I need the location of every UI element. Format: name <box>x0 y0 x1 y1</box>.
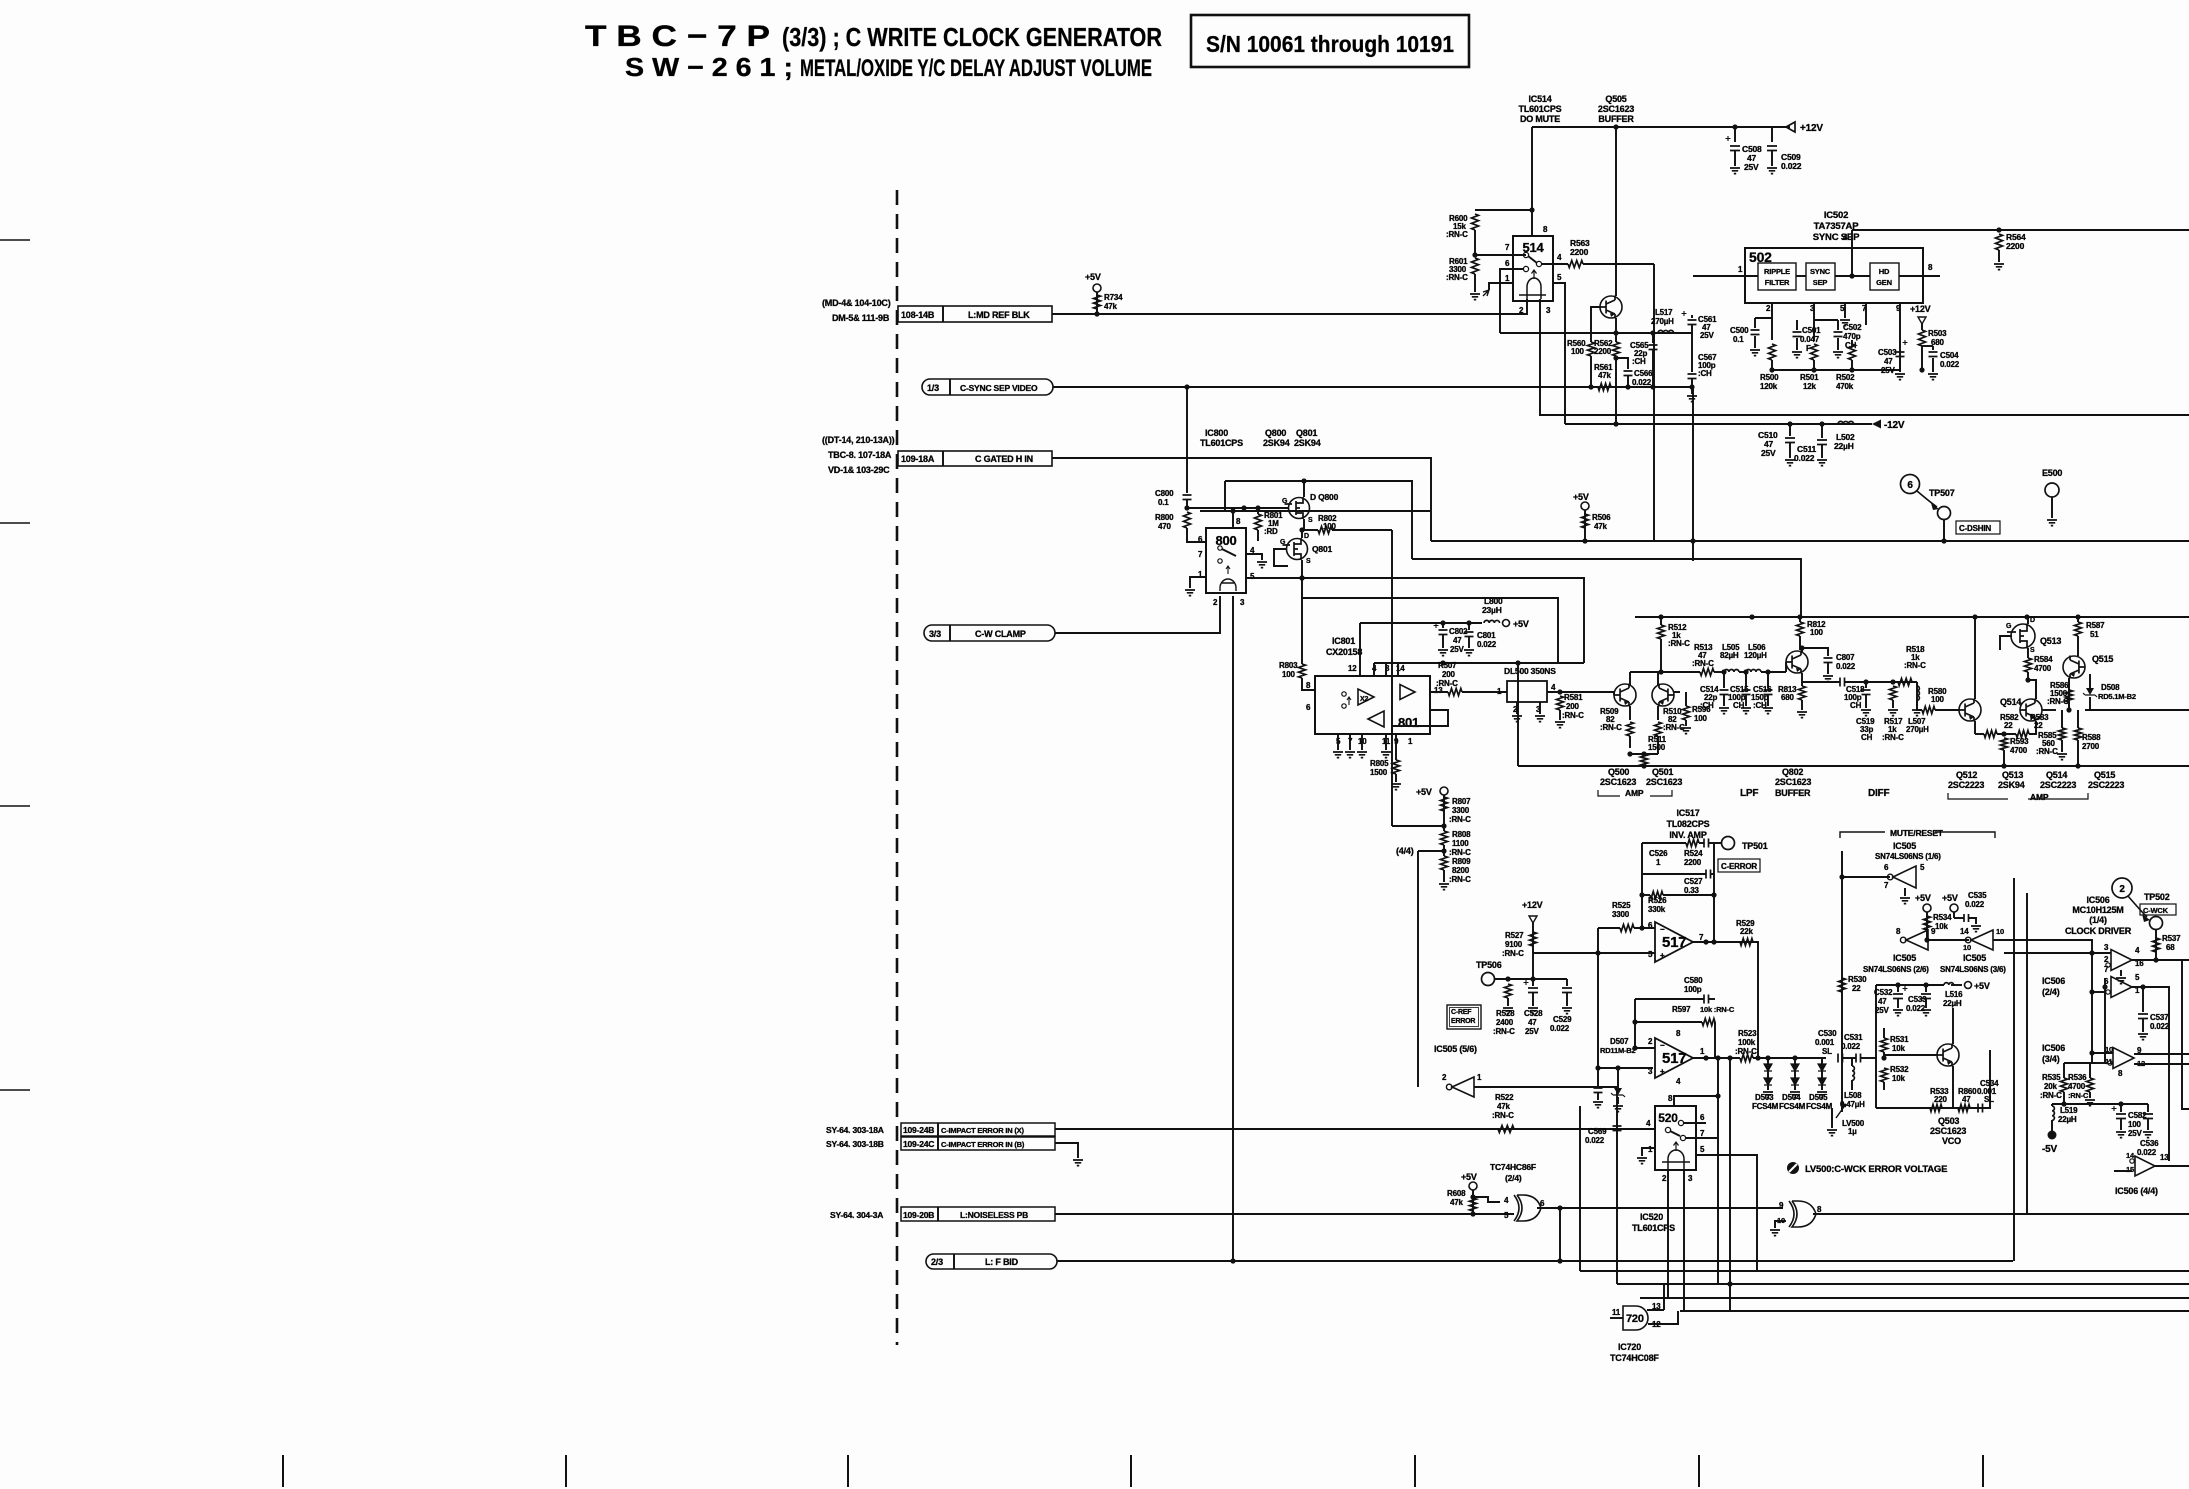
wire IC502 pin4 riser to top rail <box>1851 230 1853 276</box>
svg-text:109-24C: 109-24C <box>903 1139 934 1149</box>
svg-text:DO MUTE: DO MUTE <box>1520 114 1560 124</box>
ground IC506-1 <box>2120 970 2122 976</box>
capacitor C503 <box>1896 352 1905 357</box>
capacitor C528 <box>1532 979 1534 986</box>
svg-text:2/3: 2/3 <box>931 1257 943 1267</box>
svg-text:IC506: IC506 <box>2042 976 2065 986</box>
svg-text:2SK94: 2SK94 <box>1998 780 2025 790</box>
svg-text:G: G <box>1280 539 1286 546</box>
svg-text:R534: R534 <box>1933 913 1952 922</box>
resistor R608 <box>1470 1198 1477 1211</box>
svg-text::RN-C: :RN-C <box>1600 723 1622 732</box>
wire C537 node <box>2142 987 2144 1012</box>
svg-text:TL601CPS: TL601CPS <box>1519 104 1562 114</box>
capacitor C508 <box>1734 127 1736 142</box>
zener diode D508 <box>2089 674 2091 688</box>
capacitor C518 series <box>1840 678 1845 687</box>
capacitor C511 <box>1821 424 1823 438</box>
svg-text:10k :RN-C: 10k :RN-C <box>1700 1005 1735 1014</box>
transistor Q503 VCO <box>1937 1044 1959 1066</box>
wire Q801 gate loop <box>1274 549 1288 566</box>
capacitor C536 <box>2147 1104 2149 1112</box>
svg-text:+5V: +5V <box>1513 619 1529 629</box>
transistor Q512 <box>1959 699 1981 721</box>
svg-text:11: 11 <box>1612 1308 1621 1317</box>
svg-text:100: 100 <box>1810 628 1823 637</box>
capacitor C802 <box>1442 623 1444 628</box>
transistor Q501 <box>1652 684 1674 706</box>
svg-text:25V: 25V <box>2128 1129 2142 1138</box>
wire C-IMPACT ERROR IN (X) <box>1055 1128 1655 1130</box>
svg-text::CH: :CH <box>1700 701 1714 710</box>
wire IC502 pin8 <box>1899 275 1940 277</box>
svg-text:BUFFER: BUFFER <box>1775 788 1811 798</box>
svg-text:47k: 47k <box>1497 1102 1510 1111</box>
connector 109-24B C-IMPACT ERROR IN (X) <box>901 1123 1055 1136</box>
svg-text:+5V: +5V <box>1461 1172 1477 1182</box>
buffer IC506 4/4 <box>2135 1156 2155 1176</box>
wire IC514 pin5 to -12V rail <box>1552 283 1565 424</box>
svg-text::RN-C: :RN-C <box>1562 711 1584 720</box>
svg-text:3300: 3300 <box>1452 806 1470 815</box>
svg-text:2200: 2200 <box>1594 347 1612 356</box>
svg-text:0.022: 0.022 <box>1841 1042 1861 1051</box>
wire lower opamp output <box>1693 1057 1740 1059</box>
svg-text:0.022: 0.022 <box>1906 1004 1926 1013</box>
wire C-SYNC SEP VIDEO <box>1053 387 1693 561</box>
svg-text:G: G <box>1282 498 1288 505</box>
svg-text:AMP: AMP <box>2030 792 2049 802</box>
svg-text:R526: R526 <box>1648 896 1667 905</box>
capacitor C516 <box>1767 672 1769 688</box>
svg-text:C-SYNC SEP VIDEO: C-SYNC SEP VIDEO <box>960 383 1038 393</box>
svg-text:2SC2223: 2SC2223 <box>1948 780 1984 790</box>
wire DL500 output <box>1547 691 1614 693</box>
capacitor C532 <box>1897 985 1899 992</box>
svg-text:22µH: 22µH <box>1834 441 1854 451</box>
input verticals to IC506 <box>2091 940 2093 1063</box>
svg-text:0.022: 0.022 <box>1781 161 1802 171</box>
capacitor C501 <box>1793 332 1802 337</box>
test point TP501 <box>1714 842 1721 844</box>
svg-text:L517: L517 <box>1655 308 1673 317</box>
svg-text:2SC1623: 2SC1623 <box>1646 777 1682 787</box>
wire pin10/11 inputs <box>2092 1052 2113 1054</box>
net label C-ERROR <box>1718 859 1760 872</box>
svg-text::RN-C: :RN-C <box>1436 679 1458 688</box>
svg-text:+5V: +5V <box>1915 893 1931 903</box>
capacitor C565 <box>1649 345 1658 350</box>
svg-text:15: 15 <box>2126 1165 2134 1174</box>
capacitor C582 <box>2120 1104 2122 1112</box>
svg-text:12k: 12k <box>1803 382 1816 391</box>
svg-text:R584: R584 <box>2034 655 2053 664</box>
svg-text:1500: 1500 <box>1648 743 1666 752</box>
circled 2 pointer <box>2112 878 2132 898</box>
svg-text::CH: :CH <box>1632 357 1646 366</box>
svg-text:C566: C566 <box>1634 369 1653 378</box>
resistor R586 <box>2066 690 2073 702</box>
resistor R517 <box>1890 686 1897 700</box>
svg-text:10k: 10k <box>1892 1044 1905 1053</box>
svg-text:TC74HC08F: TC74HC08F <box>1610 1353 1659 1363</box>
resistor R528 <box>1505 984 1512 998</box>
capacitor C801 <box>1468 623 1470 630</box>
capacitor C519 <box>1865 682 1867 688</box>
wire long rail y541 C-DSHIN <box>1431 540 2189 542</box>
wire IC800 pin1 ground <box>1190 577 1206 588</box>
svg-text:C504: C504 <box>1940 351 1959 360</box>
svg-text:9100: 9100 <box>1505 940 1523 949</box>
svg-text:517: 517 <box>1662 934 1686 951</box>
svg-text:C529: C529 <box>1553 1015 1572 1024</box>
wire +5V rail L800 <box>1360 622 1482 624</box>
svg-text:IC517: IC517 <box>1676 808 1699 818</box>
label LV500 C-WCK ERROR VOLTAGE <box>1787 1162 1799 1174</box>
svg-text:47k: 47k <box>1450 1198 1463 1207</box>
svg-text:CX20158: CX20158 <box>1326 647 1362 657</box>
svg-text:100p: 100p <box>1684 985 1702 994</box>
inverter IC505 5/6 <box>1452 1077 1474 1097</box>
wire R535 node rail <box>2052 1103 2121 1105</box>
svg-text:IC800: IC800 <box>1205 428 1228 438</box>
svg-text:100: 100 <box>2128 1120 2141 1129</box>
svg-text:1100: 1100 <box>1452 839 1469 848</box>
svg-text:13: 13 <box>2160 1153 2169 1162</box>
svg-text:L:MD REF BLK: L:MD REF BLK <box>968 310 1030 320</box>
vertical x2014 <box>2013 878 2015 1261</box>
svg-text:IC506 (4/4): IC506 (4/4) <box>2115 1186 2158 1196</box>
svg-text:C537: C537 <box>2150 1013 2169 1022</box>
svg-text:25V: 25V <box>1700 331 1714 340</box>
svg-text:109-24B: 109-24B <box>903 1125 934 1135</box>
svg-text:470p: 470p <box>1843 332 1861 341</box>
zener diode D507 <box>1617 1068 1619 1088</box>
wire inverter 5/6 output <box>1474 1086 1617 1088</box>
svg-text:TP501: TP501 <box>1742 841 1768 851</box>
svg-text:22: 22 <box>2004 721 2013 730</box>
wire rail y766 bottom of band <box>1518 765 2189 767</box>
wire IC506-3 outputs <box>2134 1053 2189 1055</box>
svg-text:R535: R535 <box>2042 1073 2061 1082</box>
wire top rail over IC800 <box>1200 510 1430 512</box>
svg-text:C-DSHIN: C-DSHIN <box>1959 524 1991 533</box>
wire Q800 drain rail <box>1225 481 1412 559</box>
svg-text:CH: CH <box>1861 733 1873 742</box>
svg-text:720: 720 <box>1626 1313 1644 1325</box>
wire +12V top rail <box>1532 126 1790 128</box>
wire IC514 pin8 riser <box>1531 127 1533 236</box>
svg-text:1/3: 1/3 <box>927 383 939 393</box>
svg-text:3/3: 3/3 <box>929 629 941 639</box>
svg-text:Q515: Q515 <box>2094 770 2115 780</box>
wire Q514 base to Q515 <box>2042 709 2056 711</box>
svg-text:100k: 100k <box>1738 1038 1756 1047</box>
wire rail y333 below Q505 <box>1500 332 1692 334</box>
resistor R800 <box>1184 505 1189 510</box>
svg-text:C501: C501 <box>1802 326 1821 335</box>
diodes D503 D504 D505 <box>1767 1058 1769 1064</box>
wire between inverters <box>1928 939 1969 941</box>
svg-text:2SK94: 2SK94 <box>1294 438 1321 448</box>
resistor R808 <box>1441 831 1448 845</box>
svg-text:25V: 25V <box>1525 1027 1539 1036</box>
svg-text:C531: C531 <box>1844 1033 1863 1042</box>
svg-text:GEN: GEN <box>1876 278 1892 287</box>
svg-text:(2/4): (2/4) <box>2042 987 2060 997</box>
wire bus y1298 <box>1640 1297 2189 1299</box>
resistors R582 R583 <box>1984 731 1997 738</box>
IC801 ground pins <box>1337 734 1339 750</box>
svg-text:+: + <box>1660 951 1665 960</box>
svg-text:S: S <box>2030 647 2035 654</box>
svg-text:200: 200 <box>1442 670 1455 679</box>
svg-text::RN-C: :RN-C <box>1449 848 1471 857</box>
svg-text:22: 22 <box>2034 721 2043 730</box>
resistor R564 <box>1996 234 2003 250</box>
IC801 body <box>1315 676 1430 734</box>
svg-text:R734: R734 <box>1104 293 1123 302</box>
resistor R801 <box>1255 514 1262 530</box>
svg-text:Q500: Q500 <box>1608 767 1629 777</box>
svg-text:SY-64. 303-18A: SY-64. 303-18A <box>826 1125 884 1135</box>
svg-text:2400: 2400 <box>1496 1018 1514 1027</box>
svg-text:IC505: IC505 <box>1893 841 1916 851</box>
svg-text:330k: 330k <box>1648 905 1666 914</box>
svg-text:LV500:C-WCK ERROR VOLTAGE: LV500:C-WCK ERROR VOLTAGE <box>1805 1164 1947 1175</box>
wire TP506 node <box>1495 978 1567 980</box>
resistor R522 in line <box>1498 1126 1514 1133</box>
wire IC520 pin1 ground <box>1642 1148 1655 1156</box>
wire T4 input routing <box>2114 1170 2132 1172</box>
svg-text:SN74LS06NS (3/6): SN74LS06NS (3/6) <box>1940 965 2006 974</box>
svg-text:680: 680 <box>1781 693 1794 702</box>
wire R529 down to lower opamp output <box>1753 942 1758 1058</box>
wire vertical x1518 <box>1517 663 1519 766</box>
svg-text:2SK94: 2SK94 <box>1263 438 1290 448</box>
svg-text:D: D <box>2030 617 2035 624</box>
vertical x1580 <box>1579 1106 1581 1271</box>
buffer IC506 1/4 <box>2111 950 2132 971</box>
resistor R600 <box>1475 209 1532 211</box>
svg-text:82µH: 82µH <box>1720 651 1739 660</box>
svg-text:0.022: 0.022 <box>2137 1148 2157 1157</box>
svg-text:E500: E500 <box>2042 468 2062 478</box>
svg-text:FCS4M: FCS4M <box>1806 1102 1833 1111</box>
svg-text:C500: C500 <box>1730 326 1749 335</box>
svg-text:MUTE/RESET: MUTE/RESET <box>1890 828 1944 838</box>
svg-text:AMP: AMP <box>1625 788 1644 798</box>
svg-text:C800: C800 <box>1155 489 1174 498</box>
svg-text:INV. AMP: INV. AMP <box>1669 830 1706 840</box>
net label C-REF ERROR box <box>1447 1005 1481 1029</box>
wire IC514 pin1 ground <box>1489 283 1513 290</box>
wire from R802 down to IC517 area <box>1391 530 1393 826</box>
wire R601 to IC514 pin7 <box>1475 254 1526 256</box>
vertical drops below IC520 <box>1559 1208 1561 1261</box>
svg-text:R588: R588 <box>2082 733 2101 742</box>
inductor L800 <box>1484 620 1500 623</box>
vertical x1668 from IC520 pin2 <box>1667 1170 1669 1298</box>
wire IC502 pin1 <box>1693 275 1758 277</box>
svg-text:C528: C528 <box>1524 1009 1543 1018</box>
wire XOR2 pin10 ground <box>1775 1221 1786 1228</box>
svg-text:RD5.1M-B2: RD5.1M-B2 <box>2098 692 2136 701</box>
inductor L502 <box>1838 421 1854 424</box>
svg-text:SL: SL <box>1822 1047 1832 1056</box>
svg-text:C527: C527 <box>1684 877 1703 886</box>
svg-text:25V: 25V <box>1450 645 1464 654</box>
svg-text:0.022: 0.022 <box>1550 1024 1570 1033</box>
IC801 internal x2 amp <box>1358 689 1374 705</box>
svg-text:10: 10 <box>1963 943 1971 952</box>
wire L:MD REF BLK to IC514 pin2 <box>1052 299 1527 314</box>
svg-text:0.001: 0.001 <box>1815 1038 1835 1047</box>
svg-text:470k: 470k <box>1836 382 1854 391</box>
coil L516 <box>1944 983 1954 985</box>
wire IC800 pin4 <box>1246 554 1262 560</box>
svg-text:68: 68 <box>2166 943 2175 952</box>
capacitor on +input rail <box>1597 1068 1599 1086</box>
svg-text:270µH: 270µH <box>1651 317 1674 326</box>
svg-text:VD-1& 103-29C: VD-1& 103-29C <box>828 465 890 475</box>
svg-text:−: − <box>1660 925 1665 934</box>
transistor Q802 <box>1786 651 1808 673</box>
svg-text:C-ERROR: C-ERROR <box>1721 862 1757 871</box>
svg-text:C503: C503 <box>1878 348 1897 357</box>
svg-text:47: 47 <box>1884 357 1893 366</box>
svg-text:L:NOISELESS PB: L:NOISELESS PB <box>960 1210 1028 1220</box>
wire output rail y692 to DL500 <box>1430 691 1448 693</box>
svg-text:R536: R536 <box>2068 1073 2087 1082</box>
wire rail y617 <box>1635 616 2189 618</box>
resistor R511 <box>1630 753 1658 755</box>
buffer IC506 3/4 <box>2113 1048 2134 1069</box>
svg-text:Q513: Q513 <box>2040 636 2061 646</box>
resistor R509 <box>1627 722 1634 736</box>
wire XOR2 output bus <box>1813 1213 2189 1215</box>
wire Q514/Q515 emitter rail y710 <box>2085 709 2189 711</box>
svg-text:D507: D507 <box>1610 1037 1629 1046</box>
svg-text:FCS4M: FCS4M <box>1752 1102 1779 1111</box>
svg-text:22µH: 22µH <box>2058 1115 2077 1124</box>
connector 109-24C C-IMPACT ERROR IN (B) <box>901 1137 1055 1150</box>
resistor R593 <box>2001 738 2008 750</box>
resistor R584 <box>2025 658 2032 672</box>
svg-text:22µH: 22µH <box>1943 999 1962 1008</box>
svg-text:IC505 (5/6): IC505 (5/6) <box>1434 1044 1477 1054</box>
svg-text::RN-C: :RN-C <box>1735 1047 1757 1056</box>
wire IC520 pin5 <box>1696 1155 1757 1271</box>
wire x2182 loop <box>2182 960 2189 1109</box>
svg-text:L516: L516 <box>1945 990 1963 999</box>
capacitor C537 <box>2138 1014 2148 1019</box>
buffer IC506 2/4 <box>2111 977 2132 998</box>
svg-text:2: 2 <box>2119 884 2125 895</box>
svg-text:R800: R800 <box>1155 513 1174 522</box>
test point TP502 <box>2150 917 2163 930</box>
IC502 hd gen block <box>1870 263 1899 290</box>
svg-text:0.022: 0.022 <box>1477 640 1497 649</box>
svg-text:R523: R523 <box>1738 1029 1757 1038</box>
svg-text:D504: D504 <box>1782 1093 1801 1102</box>
resistor R734 <box>1096 292 1098 314</box>
svg-text::RN-C: :RN-C <box>2036 747 2058 756</box>
svg-text:C GATED H IN: C GATED H IN <box>975 454 1033 464</box>
svg-text:S: S <box>1308 517 1313 524</box>
inductor L507 <box>1916 682 1918 686</box>
svg-text:SN74LS06NS (2/6): SN74LS06NS (2/6) <box>1863 965 1929 974</box>
svg-text:2200: 2200 <box>1684 858 1702 867</box>
svg-text:C-WCK: C-WCK <box>2143 906 2169 915</box>
capacitor C514 <box>1723 672 1725 688</box>
svg-text:(2/4): (2/4) <box>1505 1173 1522 1183</box>
svg-text:Q503: Q503 <box>1938 1116 1959 1126</box>
connector 109-18A C GATED H IN <box>898 451 1052 466</box>
svg-text:R530: R530 <box>1848 975 1867 984</box>
svg-text:8200: 8200 <box>1452 866 1470 875</box>
svg-text:IC506: IC506 <box>2042 1043 2065 1053</box>
wire vertical to lower opamp + input <box>1598 953 1653 1068</box>
wire rail y578 from switch 800 pin5 <box>1246 578 1584 663</box>
svg-text:220: 220 <box>1934 1095 1947 1104</box>
capacitor C515 <box>1745 672 1747 688</box>
+5V feed R608 <box>1469 1182 1477 1190</box>
left edge ticks <box>0 240 30 1090</box>
vertical x1617 <box>1616 1087 1618 1284</box>
dashed board boundary line <box>896 190 899 1345</box>
svg-text:Q800: Q800 <box>1265 428 1286 438</box>
svg-text:1µ: 1µ <box>1848 1127 1857 1136</box>
wire IC801 pin14 to DL500 rail <box>1397 663 1399 676</box>
svg-text:+: + <box>1660 1067 1665 1076</box>
feedback C580 R597 <box>1635 1047 1655 1049</box>
wire C GATED H IN <box>1052 458 1431 541</box>
svg-text:TP502: TP502 <box>2144 892 2170 902</box>
svg-text:L508: L508 <box>1844 1091 1862 1100</box>
svg-text:6: 6 <box>1907 480 1913 491</box>
svg-text:(3/3) ; C WRITE CLOCK GENERAT: (3/3) ; C WRITE CLOCK GENERATOR <box>782 22 1162 52</box>
svg-text:100: 100 <box>1571 347 1584 356</box>
svg-text:DIFF: DIFF <box>1868 788 1890 799</box>
svg-text:R805: R805 <box>1370 759 1389 768</box>
svg-text:14: 14 <box>1960 927 1969 936</box>
wire long rail y415 <box>1539 414 2189 416</box>
transistor Q801 (FET) <box>1287 539 1308 560</box>
svg-text:2SC2223: 2SC2223 <box>2040 780 2076 790</box>
svg-text:+12V: +12V <box>1910 304 1931 314</box>
svg-text:R581: R581 <box>1564 693 1583 702</box>
svg-text:R807: R807 <box>1452 797 1471 806</box>
IC801 internal inverter <box>1368 711 1384 727</box>
resistor R523 <box>1740 1055 1753 1062</box>
svg-text:-12V: -12V <box>1884 420 1905 431</box>
svg-text:Q501: Q501 <box>1652 767 1673 777</box>
connector 2/3 L: F BID pill <box>926 1254 1057 1269</box>
svg-text:SYNC: SYNC <box>1810 267 1831 276</box>
svg-text:47k: 47k <box>1594 522 1607 531</box>
svg-text:C-REF: C-REF <box>1451 1009 1472 1016</box>
svg-text:C530: C530 <box>1818 1029 1837 1038</box>
inverter IC505 1/6 <box>1893 866 1916 888</box>
transistor Q800 (FET) <box>1289 498 1310 519</box>
svg-text:109-18A: 109-18A <box>901 454 935 464</box>
wire IC506-1 output <box>2132 959 2189 961</box>
bracket MUTE/RESET <box>1840 832 1995 838</box>
wire XOR1 output <box>1537 1207 1783 1209</box>
svg-text:200: 200 <box>1566 702 1579 711</box>
capacitor C504 <box>1929 352 1938 357</box>
